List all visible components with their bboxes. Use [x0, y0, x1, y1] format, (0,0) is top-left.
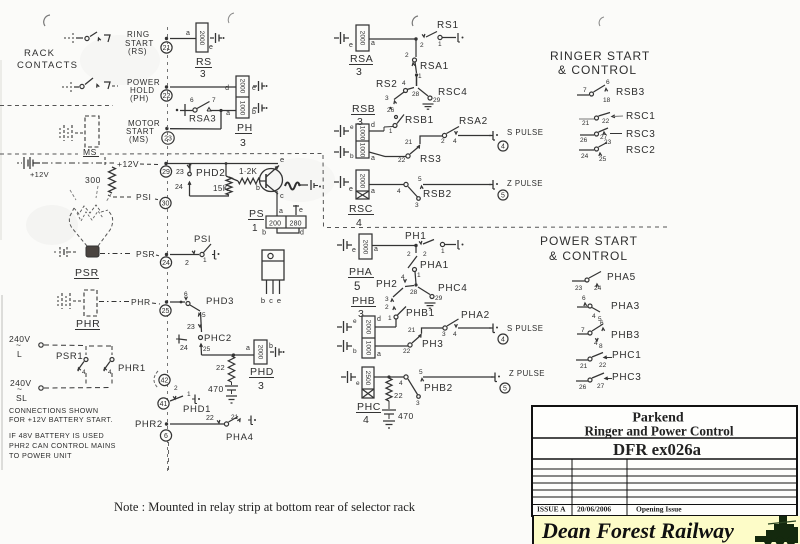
svg-text:4: 4 — [397, 188, 401, 195]
svg-text:22: 22 — [403, 348, 411, 355]
node 25 junction dot — [165, 300, 168, 303]
svg-text:PS: PS — [249, 208, 264, 220]
ground below PHC4 — [425, 303, 436, 308]
svg-text:d: d — [300, 230, 304, 237]
svg-text:Z PULSE: Z PULSE — [509, 369, 545, 378]
svg-text:24: 24 — [581, 153, 589, 160]
svg-text:(MS): (MS) — [129, 135, 149, 144]
terminal 25 circled — [160, 305, 171, 316]
svg-text:2000: 2000 — [364, 320, 371, 335]
contact PHB3 — [577, 320, 605, 350]
svg-text:d: d — [225, 85, 229, 92]
switch PHA1 — [408, 256, 421, 284]
label PH 3 — [235, 122, 253, 149]
svg-text:PHA2: PHA2 — [461, 310, 490, 321]
svg-text:22: 22 — [602, 118, 610, 125]
svg-text:S PULSE: S PULSE — [507, 128, 543, 137]
end terminal S pulse ringer — [489, 128, 543, 140]
text 20/06/2006 — [577, 505, 611, 514]
wire node22 to coil PH — [170, 86, 236, 88]
svg-text:25: 25 — [599, 156, 607, 163]
svg-text:7: 7 — [581, 327, 585, 334]
svg-text:RS2: RS2 — [376, 79, 398, 90]
end terminal Z pulse ringer — [489, 179, 543, 189]
svg-text:1: 1 — [438, 41, 442, 48]
relay PHR with battery — [58, 290, 101, 330]
svg-text:e: e — [353, 318, 357, 325]
text POWER HOLD (PH) — [127, 78, 160, 103]
note mounted in relay strip — [114, 500, 416, 514]
battery +12V — [17, 157, 49, 179]
title block line under titles — [532, 437, 797, 439]
svg-text:23: 23 — [187, 324, 195, 331]
svg-text:2000: 2000 — [238, 79, 245, 94]
wire +12V to rail — [42, 162, 114, 164]
svg-text:ISSUE A: ISSUE A — [537, 505, 566, 514]
text PHB3 — [611, 330, 640, 341]
resistor 300 — [85, 157, 116, 197]
svg-text:b: b — [353, 348, 357, 355]
svg-text:a: a — [374, 246, 378, 253]
svg-text:DFR ex026a: DFR ex026a — [613, 440, 702, 459]
svg-text:d: d — [377, 316, 381, 323]
svg-text:4: 4 — [108, 369, 112, 376]
svg-text:470: 470 — [208, 384, 224, 394]
svg-text:5: 5 — [503, 385, 507, 392]
text MOTOR START (MS) — [126, 119, 160, 144]
label RSB 3 — [351, 103, 375, 128]
revision table lines — [532, 459, 797, 516]
dashed vertical PSU box right edge — [322, 155, 325, 227]
svg-text:2: 2 — [420, 42, 424, 49]
svg-text:25: 25 — [203, 346, 211, 353]
svg-text:b: b — [256, 185, 260, 192]
svg-text:PHA3: PHA3 — [611, 301, 640, 312]
wire PSI dashed — [113, 196, 134, 198]
svg-text:Z PULSE: Z PULSE — [507, 179, 543, 188]
svg-text:1000: 1000 — [358, 126, 365, 141]
svg-text:a: a — [279, 208, 283, 215]
svg-text:CONNECTIONS SHOWN: CONNECTIONS SHOWN — [9, 406, 98, 415]
rack contact switch PH (power hold) — [62, 78, 118, 92]
terminal circle SL — [39, 386, 43, 390]
svg-text:e: e — [356, 380, 360, 387]
svg-text:PH2: PH2 — [376, 279, 398, 290]
scan curl artifact marks — [44, 13, 604, 26]
svg-text:5: 5 — [354, 281, 360, 293]
svg-text:b: b — [252, 109, 256, 116]
svg-text:21: 21 — [231, 414, 239, 421]
text RSC1 — [626, 111, 655, 122]
wire PHD3 down — [201, 312, 202, 332]
svg-text:PHC: PHC — [357, 401, 381, 413]
svg-text:Ringer and Power Control: Ringer and Power Control — [584, 424, 733, 439]
svg-text:a: a — [246, 345, 250, 352]
svg-text:3: 3 — [200, 69, 206, 80]
battery at PHB coil bottom — [337, 340, 357, 355]
svg-text:29: 29 — [435, 295, 443, 302]
svg-text:Opening Issue: Opening Issue — [636, 505, 682, 514]
battery at PHA coil — [337, 239, 356, 254]
svg-text:e: e — [349, 186, 353, 193]
contact RSC1 — [579, 113, 623, 128]
capacitor 470 to ground — [208, 382, 238, 403]
svg-text:c: c — [280, 191, 284, 200]
svg-text:2000: 2000 — [358, 174, 365, 189]
capacitor at RS coil — [210, 33, 225, 43]
svg-text:300: 300 — [85, 175, 101, 185]
text PHC3 — [612, 372, 641, 383]
svg-text:22: 22 — [394, 391, 403, 400]
wire node23 to PH coil a — [170, 111, 221, 130]
svg-text:PHR: PHR — [131, 297, 151, 307]
text Opening Issue — [636, 505, 682, 514]
svg-text:CONTACTS: CONTACTS — [17, 60, 78, 71]
svg-text:PHA: PHA — [349, 266, 372, 278]
text PHR1 — [118, 363, 146, 374]
svg-text:22: 22 — [163, 93, 171, 100]
wire collector to PS unit — [276, 191, 278, 216]
svg-text:3: 3 — [240, 137, 246, 149]
text PHB2 — [424, 383, 453, 394]
svg-text:PHC2: PHC2 — [204, 333, 232, 344]
switch RSB1 — [369, 107, 404, 135]
text ISSUE A — [537, 505, 566, 514]
label PHA 5 — [348, 266, 374, 293]
svg-text:21: 21 — [408, 327, 416, 334]
svg-text:PHR: PHR — [76, 318, 101, 330]
contact RSC3 — [580, 128, 622, 144]
note text connections — [9, 406, 116, 460]
svg-text:2000: 2000 — [358, 31, 365, 46]
svg-text:RSA3: RSA3 — [189, 114, 216, 125]
wire PSR dashed — [100, 253, 133, 255]
switch RSC4 branch — [418, 88, 441, 104]
relay coil RSB 1000/1000 — [356, 122, 375, 162]
svg-text:24: 24 — [180, 345, 188, 352]
switch PSI — [170, 234, 220, 267]
svg-text:3: 3 — [415, 202, 419, 209]
svg-text:4: 4 — [356, 217, 362, 229]
svg-text:TO POWER UNIT: TO POWER UNIT — [9, 451, 72, 460]
svg-text:4: 4 — [592, 313, 596, 320]
svg-text:3: 3 — [258, 380, 264, 392]
terminal 30 circled — [160, 197, 171, 208]
svg-text:22: 22 — [206, 415, 214, 422]
text PHD3 — [206, 296, 234, 307]
battery at RSA coil — [334, 32, 353, 49]
svg-text:e: e — [349, 42, 353, 49]
switch PHB2 — [399, 369, 493, 407]
wire PH3 to PHA2 — [422, 328, 444, 334]
text DFR ex026a — [613, 440, 702, 459]
svg-text:22: 22 — [398, 157, 406, 164]
end terminal S pulse power — [489, 324, 543, 334]
switch RS2 branch — [376, 79, 414, 109]
svg-text:+12V: +12V — [117, 159, 139, 169]
svg-text:2: 2 — [423, 251, 427, 258]
svg-text:c: c — [269, 296, 273, 305]
svg-text:3: 3 — [356, 66, 362, 78]
svg-text:280: 280 — [290, 221, 302, 228]
ground below RSC4 — [423, 104, 434, 109]
svg-text:2: 2 — [185, 260, 189, 267]
svg-text:RSA1: RSA1 — [420, 61, 449, 72]
text RSC3 — [626, 129, 655, 140]
switch PHD2 contact — [175, 163, 191, 196]
label PS 1 — [248, 208, 264, 234]
label PSR under lamp — [74, 267, 99, 279]
svg-text:a: a — [371, 40, 375, 47]
relay coil RS 2000 — [196, 23, 213, 52]
wire PHC to PHB2 — [374, 375, 404, 378]
svg-text:2: 2 — [174, 385, 178, 392]
svg-text:RSC: RSC — [349, 203, 373, 215]
svg-text:b: b — [350, 153, 354, 160]
svg-text:PSR1: PSR1 — [56, 351, 83, 362]
text PHD1 — [183, 404, 211, 415]
yellow banner — [533, 516, 800, 544]
svg-text:2: 2 — [441, 138, 445, 145]
text PHA4 — [226, 432, 254, 443]
transistor Q1 — [256, 155, 284, 200]
wire PHD2 bottom to 15K — [190, 195, 230, 197]
svg-text:PSI: PSI — [194, 234, 211, 245]
contact PHC3 — [576, 373, 612, 391]
svg-text:7: 7 — [212, 97, 216, 104]
svg-text:15K: 15K — [213, 184, 229, 193]
text PSR on wire — [136, 249, 160, 259]
svg-text:b: b — [261, 296, 265, 305]
node 23 junction dot — [165, 127, 168, 130]
svg-text:PH1: PH1 — [405, 231, 427, 242]
svg-text:4: 4 — [501, 143, 505, 150]
svg-text:SL: SL — [16, 393, 27, 403]
switch PHR1 mains — [89, 346, 114, 384]
svg-text:e: e — [352, 247, 356, 254]
svg-text:PSI: PSI — [136, 192, 152, 202]
capacitor at PH coil top — [253, 81, 268, 91]
svg-text:a: a — [377, 351, 381, 358]
contact PHA5 — [572, 272, 602, 293]
svg-text:1: 1 — [252, 223, 258, 234]
contact PHA3 — [577, 295, 602, 323]
title RINGER START & CONTROL — [550, 49, 650, 77]
node RSA junction dot — [414, 37, 417, 40]
title POWER START & CONTROL — [540, 234, 638, 263]
label RS 3 — [195, 56, 212, 80]
terminal 24 circled — [160, 257, 171, 268]
label RSA 3 — [349, 53, 373, 78]
svg-text:2: 2 — [407, 251, 411, 258]
capacitor 470 PHC to ground — [382, 401, 414, 428]
svg-text:Dean Forest Railway: Dean Forest Railway — [541, 518, 734, 543]
text RSB3 — [616, 87, 645, 98]
svg-text:1·2K: 1·2K — [239, 167, 257, 176]
svg-text:RSC4: RSC4 — [438, 87, 467, 98]
svg-text:IF 48V BATTERY IS USED: IF 48V BATTERY IS USED — [9, 431, 104, 440]
battery at RSB coil bottom — [334, 146, 354, 160]
battery at PHC coil — [341, 371, 360, 387]
svg-text:1: 1 — [441, 248, 445, 255]
text RSB1 — [405, 115, 434, 126]
rack contact switch RS (ring start) — [64, 32, 110, 43]
node 28 label — [412, 91, 420, 98]
text Ringer and Power Control — [584, 424, 733, 439]
text PHR2 on wire — [135, 419, 163, 430]
dashed rail top-left — [0, 105, 113, 107]
text PHD2 — [196, 168, 225, 179]
svg-text:e: e — [350, 124, 354, 131]
svg-text:4: 4 — [453, 331, 457, 338]
svg-text:PHR1: PHR1 — [118, 363, 146, 374]
svg-text:24: 24 — [162, 260, 170, 267]
label RSC 4 — [348, 203, 374, 229]
svg-text:25: 25 — [162, 308, 170, 315]
svg-text:3: 3 — [385, 95, 389, 102]
svg-text:2000: 2000 — [361, 240, 368, 255]
svg-text:RACK: RACK — [24, 48, 55, 59]
svg-text:2: 2 — [385, 304, 389, 311]
contact PHC1 — [576, 353, 612, 371]
switch RS3 — [369, 139, 442, 165]
svg-text:b: b — [262, 230, 266, 237]
svg-text:1000: 1000 — [358, 143, 365, 158]
switch PHC4 branch — [418, 287, 443, 302]
svg-text:RSC3: RSC3 — [626, 129, 655, 140]
svg-text:RINGER START: RINGER START — [550, 49, 650, 63]
svg-text:L: L — [17, 349, 22, 359]
svg-text:PHA5: PHA5 — [607, 272, 636, 283]
svg-text:4: 4 — [82, 369, 86, 376]
svg-text:6: 6 — [190, 97, 194, 104]
svg-text:PHD: PHD — [250, 366, 274, 378]
switch RSA3 — [176, 97, 236, 116]
node 24 junction dot — [165, 253, 168, 256]
relay coil PHA 2000 — [359, 234, 378, 259]
svg-text:2: 2 — [405, 52, 409, 59]
svg-text:RS1: RS1 — [437, 20, 459, 31]
text PHA2 — [461, 310, 490, 321]
terminal 5 circled power — [500, 383, 510, 393]
svg-text:1: 1 — [417, 272, 421, 279]
svg-text:MS: MS — [83, 147, 97, 157]
node PHR2 junction dot — [165, 422, 168, 425]
text PHB1 — [406, 308, 435, 319]
svg-text:PHB2: PHB2 — [424, 383, 453, 394]
text PHC2 — [204, 333, 232, 344]
svg-text:3: 3 — [442, 331, 446, 338]
svg-text:PHB1: PHB1 — [406, 308, 435, 319]
svg-text:26: 26 — [387, 107, 395, 114]
text RSA2 — [459, 116, 488, 127]
terminal circle L — [39, 343, 43, 347]
svg-text:PHB3: PHB3 — [611, 330, 640, 341]
svg-text:23: 23 — [164, 135, 172, 142]
text PHA1 — [420, 260, 449, 271]
svg-text:5: 5 — [501, 192, 505, 199]
switch RSB2 — [369, 176, 491, 209]
text 240V SL mains switched live — [10, 378, 31, 403]
wire node21 to coil RS — [170, 30, 196, 39]
text Parkend — [632, 411, 684, 426]
relay MS with battery — [60, 116, 99, 157]
title block line under drawing number — [532, 458, 797, 460]
wire PHA to node PH1 — [372, 245, 416, 247]
resistor 1.2K — [226, 167, 260, 184]
svg-text:22: 22 — [599, 362, 607, 369]
svg-text:28: 28 — [410, 289, 418, 296]
text RSB2 — [423, 189, 452, 200]
text RING START (RS) — [125, 30, 154, 56]
dashed stub below terminal 6 — [168, 442, 170, 472]
svg-text:6: 6 — [606, 79, 610, 86]
switch RSA1 — [405, 39, 422, 86]
node 21 junction dot — [165, 37, 168, 40]
terminal 29 circled — [160, 166, 171, 177]
svg-text:S PULSE: S PULSE — [507, 324, 543, 333]
svg-text:PHA1: PHA1 — [420, 260, 449, 271]
inductor squiggle at transistor output — [285, 183, 308, 190]
svg-text:PHD3: PHD3 — [206, 296, 234, 307]
svg-text:RSB1: RSB1 — [405, 115, 434, 126]
svg-text:1: 1 — [187, 391, 191, 398]
svg-text:2000: 2000 — [256, 345, 263, 360]
svg-text:6: 6 — [582, 295, 586, 302]
svg-text:a: a — [371, 155, 375, 162]
wire SL dashed — [44, 387, 112, 390]
svg-text:PHA4: PHA4 — [226, 432, 254, 443]
switch PHA4 — [170, 414, 256, 426]
terminal 22 circled — [161, 90, 172, 101]
svg-text:RSC2: RSC2 — [626, 145, 655, 156]
relay coil PHB 2000/1000 — [362, 316, 381, 358]
svg-text:a: a — [186, 30, 190, 37]
svg-text:24: 24 — [175, 184, 183, 191]
svg-text:21: 21 — [163, 45, 171, 52]
wire RSA to node — [369, 38, 416, 40]
svg-text:e: e — [277, 296, 281, 305]
capacitor at transistor output — [311, 180, 321, 190]
svg-text:18: 18 — [603, 97, 611, 104]
svg-text:29: 29 — [433, 97, 441, 104]
svg-text:42: 42 — [161, 377, 169, 384]
svg-text:a: a — [371, 188, 375, 195]
svg-text:PHR2: PHR2 — [135, 419, 163, 430]
svg-text:e: e — [280, 155, 284, 164]
svg-text:2000: 2000 — [198, 31, 205, 46]
text PHA3 — [611, 301, 640, 312]
dashed rail mid-left — [0, 153, 322, 156]
switch PHA2 — [442, 319, 491, 338]
contact RSB3 — [577, 79, 611, 104]
text 240V L mains live — [9, 334, 30, 359]
svg-text:3: 3 — [416, 400, 420, 407]
text RSA1 — [420, 61, 449, 72]
svg-text:29: 29 — [162, 169, 170, 176]
svg-text:RSB2: RSB2 — [423, 189, 452, 200]
svg-text:5: 5 — [418, 176, 422, 183]
svg-text:PHC4: PHC4 — [438, 283, 467, 294]
dashed bus line with terminals — [167, 27, 169, 472]
terminal 23 circled — [162, 132, 174, 144]
svg-text:PHB: PHB — [352, 295, 375, 307]
svg-text:21: 21 — [582, 120, 590, 127]
svg-text:& CONTROL: & CONTROL — [558, 63, 637, 77]
text PHA5 — [607, 272, 636, 283]
svg-text:4: 4 — [399, 380, 403, 387]
svg-text:(RS): (RS) — [128, 47, 147, 56]
